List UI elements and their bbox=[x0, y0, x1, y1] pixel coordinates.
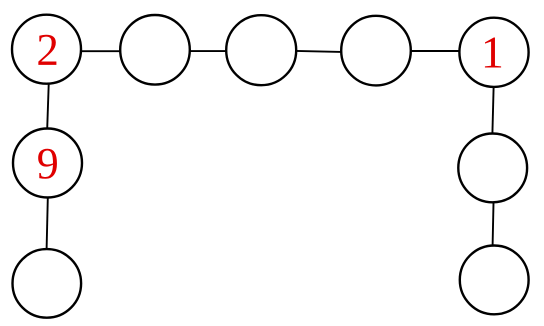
wire link C1-C8 bbox=[47, 85, 49, 129]
svg-text:1: 1 bbox=[481, 26, 504, 77]
node C9 bbox=[13, 249, 82, 318]
node C4 bbox=[341, 16, 411, 86]
node C5 (value 1) bbox=[459, 18, 528, 87]
wire link C8-C9 bbox=[47, 198, 48, 249]
wire link C3-C4 bbox=[296, 51, 341, 52]
node C3 bbox=[226, 15, 296, 85]
wire link C6-C7 bbox=[492, 203, 495, 246]
node C6 bbox=[458, 134, 527, 203]
wire link C1-C2 bbox=[82, 50, 121, 52]
node C8 (value 9) bbox=[13, 129, 82, 198]
svg-text:2: 2 bbox=[36, 25, 59, 75]
wire link C4-C5 bbox=[412, 50, 460, 52]
node C7 bbox=[460, 246, 529, 315]
svg-text:9: 9 bbox=[37, 139, 59, 188]
node C2 bbox=[120, 15, 190, 85]
wire link C5-C6 bbox=[492, 88, 493, 134]
wire link C2-C3 bbox=[190, 50, 226, 52]
node C1 (value 2) bbox=[12, 15, 81, 84]
